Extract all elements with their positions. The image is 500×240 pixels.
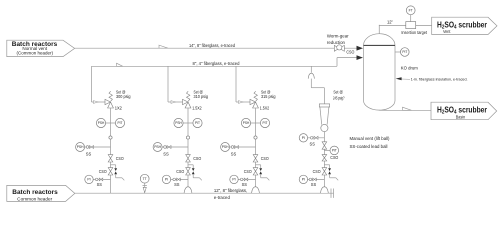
instrument PSH-1 — [101, 122, 111, 124]
flow arrow into PSV-2 — [171, 101, 175, 104]
instrument PIT-4 — [324, 149, 330, 151]
off-page connector: H2SO4 scrubber basin — [431, 102, 497, 120]
svg-text:Basin: Basin — [456, 115, 466, 120]
valve: CSO lower gate valve 1 — [108, 168, 113, 172]
svg-text:SS: SS — [231, 151, 237, 156]
wire: manual vent drop — [310, 79, 312, 88]
manual vent body (lift ball vent) — [320, 107, 322, 125]
instrument FT — [406, 6, 415, 15]
relief valve PSV-1 — [105, 99, 111, 104]
svg-text:PI: PI — [87, 178, 90, 182]
flange: manual vent top flange — [319, 104, 329, 107]
instrument PIT on KO drum — [395, 51, 401, 53]
svg-text:(Common header): (Common header) — [17, 50, 54, 55]
instrument TT with thermowell — [140, 174, 149, 183]
valve: CSO lower gate valve 3 — [253, 168, 258, 172]
svg-text:SS: SS — [310, 141, 315, 146]
instrument PSH-2 — [179, 122, 189, 124]
wire: PSV-2 discharge riser — [167, 66, 169, 102]
reducer bell into header 4 — [321, 187, 329, 193]
svg-text:PSH: PSH — [222, 145, 229, 149]
leader arrow: insulation note — [401, 78, 410, 80]
drain stub with closed valve 2 — [188, 164, 193, 166]
svg-text:Common header: Common header — [17, 197, 53, 202]
valve: worm-gear gate valve CSO — [334, 45, 339, 51]
drain stub with closed valve 4 — [324, 164, 329, 166]
flange: header end blind — [330, 189, 332, 198]
instrument PIT-1 — [111, 122, 121, 124]
instrument PSH-3 — [246, 122, 256, 124]
wire: drum overhead 12in line — [378, 25, 380, 34]
svg-text:e-traced: e-traced — [214, 195, 231, 200]
svg-text:PSH: PSH — [98, 121, 105, 125]
svg-text:CSO: CSO — [244, 169, 253, 174]
svg-text:KO drum: KO drum — [401, 66, 418, 71]
svg-text:315 psig: 315 psig — [261, 94, 276, 99]
svg-text:1.5X2: 1.5X2 — [260, 106, 270, 111]
flow arrow into PSV-1 — [94, 101, 98, 104]
node: orifice on line 1 — [109, 136, 112, 139]
instrument PIT-2 — [188, 122, 198, 124]
instrument PI-1 with root valve — [93, 178, 110, 180]
off-page connector: batch reactors normal vent — [7, 40, 75, 56]
svg-text:Set @: Set @ — [333, 89, 343, 94]
instrument PI-2 with root valve — [171, 178, 188, 180]
flow arrow on 14in header — [159, 45, 168, 48]
instrument PIT-3 — [256, 122, 266, 124]
svg-text:CSO: CSO — [346, 50, 355, 55]
svg-text:CSO: CSO — [176, 169, 185, 174]
svg-text:PSH: PSH — [175, 121, 182, 125]
instrument PI-4a with root valve — [307, 137, 324, 139]
reducer bell below header tap — [308, 73, 314, 79]
svg-text:8", 4" fiberglass, e-traced: 8", 4" fiberglass, e-traced — [193, 61, 241, 66]
svg-text:PI: PI — [232, 178, 235, 182]
svg-text:Worm-gear: Worm-gear — [327, 33, 349, 38]
off-page connector: H2SO4 scrubber vent — [432, 17, 497, 34]
wire: 14in/8in normal vent header — [75, 47, 357, 49]
svg-text:PIT: PIT — [332, 149, 337, 153]
svg-text:PI: PI — [302, 178, 305, 182]
instrument PSH-1b with root valve — [85, 146, 111, 148]
instrument PSH-3b with root valve — [230, 146, 256, 148]
wire: PSV-3 discharge riser — [235, 66, 237, 102]
wire: manual vent lower drop — [323, 132, 325, 188]
svg-text:SS-coated lead ball: SS-coated lead ball — [350, 144, 388, 149]
svg-text:Vent: Vent — [443, 29, 451, 34]
flow arrow into PSV-3 — [239, 101, 243, 104]
svg-text:PIT: PIT — [263, 121, 268, 125]
svg-text:SS: SS — [242, 182, 247, 187]
svg-text:CSO: CSO — [116, 156, 125, 161]
instrument PI-4b with root valve — [307, 178, 324, 180]
svg-text:CSO: CSO — [193, 156, 202, 161]
svg-text:PI: PI — [165, 178, 168, 182]
svg-text:PSH: PSH — [243, 121, 250, 125]
svg-text:SS: SS — [86, 151, 92, 156]
valve: CSO gate valve 4 lower — [322, 168, 327, 172]
svg-text:CSO: CSO — [330, 155, 339, 160]
nozzle arrow: 8in header into drum — [357, 55, 364, 60]
wire: 8in/4in relief header — [92, 65, 338, 67]
reducer bell into header 3 — [252, 187, 260, 193]
svg-text:reduction: reduction — [327, 40, 346, 45]
valve: CSO upper gate valve 1 — [108, 155, 113, 159]
vessel: KO drum — [364, 34, 396, 46]
flow arrow on drain line — [403, 107, 412, 110]
flow arrow on 8in header — [117, 63, 123, 66]
wire: 12in/8in common header — [75, 192, 334, 194]
lead ball — [321, 124, 328, 131]
wire: PSV-2 inlet drop — [187, 108, 189, 187]
off-page connector: batch reactors common header — [7, 185, 75, 201]
svg-text:12": 12" — [387, 19, 393, 24]
svg-text:SS: SS — [97, 182, 102, 187]
svg-text:PSH: PSH — [77, 145, 84, 149]
svg-text:PIT: PIT — [402, 50, 407, 54]
svg-text:310 psig: 310 psig — [194, 94, 209, 99]
svg-text:Insertion target: Insertion target — [401, 30, 428, 35]
svg-text:PIT: PIT — [118, 121, 123, 125]
svg-text:TT: TT — [143, 177, 147, 181]
wire: tap from 8in header to manual vent — [310, 66, 312, 72]
svg-text:300 psig: 300 psig — [116, 94, 131, 99]
svg-text:SS: SS — [174, 182, 179, 187]
wire: PSV-1 discharge riser — [91, 66, 93, 102]
drain stub with closed valve 3 — [256, 164, 261, 166]
svg-text:PIT: PIT — [195, 121, 200, 125]
svg-text:Manual vent (lift ball): Manual vent (lift ball) — [350, 136, 391, 141]
reducer bell into header 2 — [184, 187, 192, 193]
node: orifice on line 2 — [186, 136, 189, 139]
wire: PSV-3 inlet drop — [255, 108, 257, 187]
nozzle arrow: 14in header into drum — [357, 46, 364, 51]
svg-text:PSH: PSH — [154, 145, 161, 149]
svg-text:1.5X2: 1.5X2 — [192, 106, 202, 111]
svg-text:PI: PI — [302, 136, 305, 140]
svg-text:FT: FT — [409, 8, 413, 12]
svg-text:CSO: CSO — [313, 169, 322, 174]
node: orifice on line 3 — [254, 136, 257, 139]
svg-text:245 psig?: 245 psig? — [333, 96, 345, 101]
wire: drum drain to basin — [378, 109, 380, 111]
relief valve PSV-2 — [183, 99, 189, 104]
relief valve PSV-3 — [250, 99, 256, 104]
svg-text:SS: SS — [163, 151, 169, 156]
svg-text:CSO: CSO — [261, 156, 270, 161]
svg-text:CSO: CSO — [99, 169, 108, 174]
valve: CSO lower gate valve 2 — [186, 168, 191, 172]
svg-text:12", 8" fiberglass,: 12", 8" fiberglass, — [214, 188, 247, 193]
instrument PI-3 with root valve — [238, 178, 255, 180]
drain stub with closed valve 1 — [111, 164, 116, 166]
valve: CSO gate valve 4 mid — [322, 155, 327, 158]
valve: CSO upper gate valve 3 — [253, 155, 258, 159]
svg-text:Batch reactors: Batch reactors — [12, 189, 58, 196]
svg-text:1X2: 1X2 — [115, 106, 123, 111]
valve: gate valve 4 upper — [322, 142, 327, 146]
svg-text:14", 8" fiberglass, e-traced: 14", 8" fiberglass, e-traced — [189, 43, 236, 48]
svg-text:1-in. fiberglass insulation, e: 1-in. fiberglass insulation, e-traced. — [411, 77, 468, 81]
svg-text:SS: SS — [311, 182, 316, 187]
valve: CSO upper gate valve 2 — [186, 155, 191, 159]
wire: PSV-1 inlet drop — [110, 108, 112, 193]
inline element: insertion target — [406, 22, 416, 29]
instrument PSH-2b with root valve — [162, 146, 188, 148]
